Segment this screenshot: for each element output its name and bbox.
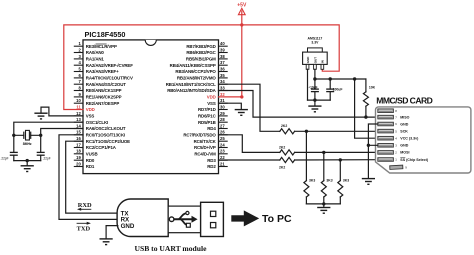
svg-text:18: 18 [76, 149, 81, 154]
wire: pin 33 SDI to SD MISO pad [219, 91, 378, 118]
svg-text:VDD: VDD [207, 95, 216, 100]
wire: pin 34 SCK to level divider [219, 84, 280, 131]
svg-text:RC6/TX/CK: RC6/TX/CK [194, 139, 217, 144]
node: crystal right junction [39, 134, 42, 137]
svg-text:RC5/D+/VP: RC5/D+/VP [194, 145, 216, 150]
node: pulldown common junction [322, 202, 325, 205]
net label RXD with left arrow [77, 202, 92, 211]
svg-text:10: 10 [76, 98, 81, 103]
svg-text:35: 35 [220, 73, 225, 78]
node: 100uF top junction [329, 77, 332, 80]
svg-text:RE1/AN6/CK2SPP: RE1/AN6/CK2SPP [86, 95, 122, 100]
ground (USB module) [100, 239, 113, 245]
SD pad 1 SS (Chip Select) [378, 158, 429, 162]
svg-text:RE0/AN5/CK1SPP: RE0/AN5/CK1SPP [86, 88, 122, 93]
svg-text:RD7/P1D: RD7/P1D [198, 107, 216, 112]
svg-text:20: 20 [76, 161, 81, 166]
node: MISO pull-up junction [364, 115, 367, 118]
node: MOSI junction [322, 151, 325, 154]
node: 3.3V rail junction [353, 77, 356, 80]
node: ground bus junction [313, 98, 316, 101]
svg-text:3K3: 3K3 [343, 179, 349, 183]
wire: SD GND pads to ground [368, 124, 377, 178]
svg-text:TXD: TXD [77, 225, 91, 232]
PIC18F4550 left pins 1-20: stubs, numbers and labels [74, 41, 133, 169]
svg-text:25: 25 [220, 136, 225, 141]
svg-text:26: 26 [220, 130, 225, 135]
wire: +5V vertical drop to VDD pin 32 [219, 11, 242, 97]
svg-text:RD4: RD4 [207, 126, 216, 131]
svg-text:MISO: MISO [400, 115, 409, 119]
capacitor 10uF [311, 79, 319, 100]
svg-text:RD0: RD0 [86, 158, 95, 163]
ground (pin 12 VSS) [34, 113, 47, 119]
ground (crystal caps) [21, 166, 34, 172]
wire: regulator ground bus [308, 100, 331, 106]
ground (pin 31 VSS) [235, 110, 248, 116]
node: SCK junction [305, 130, 308, 133]
svg-text:RD3: RD3 [207, 158, 216, 163]
svg-text:.22pF: .22pF [0, 156, 8, 160]
node: VDD pin32 junction [240, 95, 243, 98]
crystal X1 8MHz [24, 130, 31, 140]
svg-text:RB7/KBI3/PGD: RB7/KBI3/PGD [186, 44, 215, 49]
svg-text:38: 38 [220, 54, 225, 59]
svg-text:RB1/AN10/INT1/SCK/SCL: RB1/AN10/INT1/SCK/SCL [166, 82, 216, 87]
svg-text:RA6/OSC2/CLKOUT: RA6/OSC2/CLKOUT [86, 126, 126, 131]
USB-A plug [201, 202, 224, 236]
svg-text:RC0/T1OSO/T13CKI: RC0/T1OSO/T13CKI [86, 133, 125, 138]
IC U1: PIC18F4550 microcontroller body [83, 40, 219, 174]
svg-text:To PC: To PC [262, 213, 292, 225]
svg-text:3.3V: 3.3V [311, 41, 319, 45]
wire: +5V red rail (top) feeding VDD pin 11 and AMS1117 IN [64, 25, 339, 110]
svg-text:RA3/AN3/VREF+: RA3/AN3/VREF+ [86, 69, 119, 74]
SD pad 5 SCK [378, 129, 408, 133]
To PC arrow [231, 210, 259, 226]
wire: pin 15 to USB module RX [59, 135, 118, 220]
svg-text:17: 17 [76, 142, 81, 147]
svg-text:31: 31 [220, 98, 225, 103]
svg-text:RB2/AN8/INT2/VMO: RB2/AN8/INT2/VMO [177, 76, 217, 81]
node: SS junction [339, 158, 342, 161]
svg-text:VDD: VDD [86, 107, 95, 112]
wire: pulldown common to ground [306, 204, 340, 207]
svg-text:VSS: VSS [207, 101, 216, 106]
svg-text:MMC/SD CARD: MMC/SD CARD [376, 96, 432, 106]
resistor 3K3 (MOSI pulldown) [321, 152, 326, 204]
net label TXD with right arrow [77, 222, 91, 233]
svg-text:37: 37 [220, 60, 225, 65]
svg-text:RB3/AN9/CCP2/VPO: RB3/AN9/CCP2/VPO [175, 69, 216, 74]
svg-text:VCC (3.3v): VCC (3.3v) [400, 137, 419, 141]
svg-text:34: 34 [220, 79, 225, 84]
svg-text:16: 16 [76, 136, 81, 141]
wire: pin 26 SDO to level divider [219, 135, 280, 153]
SD pad 6 GND [378, 122, 409, 126]
module pin labels TX RX GND [121, 210, 135, 230]
SD pad 2 MOSI [378, 151, 410, 155]
SD pad 4 VCC (3.3v) [378, 136, 419, 140]
svg-text:10K: 10K [369, 86, 376, 90]
svg-text:RE2/AN7/OESPP: RE2/AN7/OESPP [86, 101, 120, 106]
wire: MOSI to SD MOSI pad [295, 151, 378, 153]
svg-text:14: 14 [76, 123, 81, 128]
node: regulator cap junction (10uF top) [313, 77, 316, 80]
svg-text:RB0/AN12/INT0/SDI/SDA: RB0/AN12/INT0/SDI/SDA [167, 88, 216, 93]
svg-text:15: 15 [76, 130, 81, 135]
resistor 2K2 (SS series) [280, 157, 295, 162]
svg-text:OSC1/CLKI: OSC1/CLKI [86, 120, 108, 125]
svg-text:GND: GND [306, 56, 310, 64]
wire: crystal horizontal link [14, 134, 41, 136]
svg-text:19: 19 [76, 155, 81, 160]
wire: pin 12 VSS to ground [41, 107, 83, 116]
svg-text:22: 22 [220, 155, 225, 160]
svg-text:33: 33 [220, 85, 225, 90]
svg-text:RC1/T1OSI/CCP2/UOE: RC1/T1OSI/CCP2/UOE [86, 139, 130, 144]
label AMS1117 3.3V [308, 37, 323, 45]
ground (regulator) [308, 106, 321, 112]
svg-text:29: 29 [220, 111, 225, 116]
svg-text:VUSB: VUSB [86, 152, 98, 157]
svg-text:RA4/T0CKI/C1OUT/RCV: RA4/T0CKI/C1OUT/RCV [86, 76, 133, 81]
svg-text:100uF: 100uF [333, 87, 343, 91]
wire: crystal caps common to ground [14, 161, 41, 166]
svg-text:USB to UART module: USB to UART module [135, 244, 208, 253]
svg-text:24: 24 [220, 142, 225, 147]
wire: pin 14 OSC2 to crystal [41, 129, 83, 136]
svg-text:8MHz: 8MHz [23, 142, 32, 146]
ground (pulldown resistors) [317, 208, 330, 214]
svg-text:11: 11 [76, 104, 81, 109]
svg-text:VSS: VSS [86, 114, 95, 119]
svg-text:SCK: SCK [400, 129, 408, 133]
svg-text:RD6/P1C: RD6/P1C [198, 114, 217, 119]
svg-text:3K3: 3K3 [326, 179, 332, 183]
USB symbol plate [168, 206, 200, 233]
svg-text:27: 27 [220, 123, 225, 128]
USB to UART module body [117, 199, 168, 237]
svg-text:39: 39 [220, 47, 225, 52]
wire: module GND to ground [106, 226, 118, 239]
svg-text:2K2: 2K2 [279, 145, 285, 149]
wire: pin 16 to USB module TX [66, 141, 118, 213]
svg-text:RB4/AN11/KBI0/CSSPP: RB4/AN11/KBI0/CSSPP [170, 63, 216, 68]
svg-text:GND: GND [400, 144, 408, 148]
svg-text:3K3: 3K3 [309, 179, 315, 183]
node: +5V rail junction [240, 23, 243, 26]
svg-text:GND: GND [400, 122, 408, 126]
svg-text:RD1: RD1 [86, 164, 95, 169]
USB trident icon [169, 211, 197, 227]
resistor 3K3 (SS pulldown) [338, 160, 343, 204]
capacitor 100uF [326, 79, 334, 100]
svg-text:RE3/MCLR/VPP: RE3/MCLR/VPP [86, 44, 117, 49]
voltage regulator U2 AMS1117-3.3 [303, 48, 328, 69]
svg-text:RA2/AN2/VREF-/CVREF: RA2/AN2/VREF-/CVREF [86, 63, 133, 68]
svg-text:30: 30 [220, 104, 225, 109]
SD pad 9 [390, 165, 403, 169]
node: crystal left junction [12, 134, 15, 137]
wire: 3.3V branch to SD VCC pad [355, 79, 378, 138]
resistor 2K2 (MOSI series) [280, 150, 295, 155]
SD pad 3 GND [378, 144, 409, 148]
svg-text:+5V: +5V [237, 2, 247, 8]
wire: pin 13 OSC1 to crystal [14, 122, 83, 135]
svg-text:2K2: 2K2 [279, 165, 285, 169]
wire: SCK to SD SCK pad [295, 130, 378, 132]
wire: SS to SD SS pad [295, 159, 378, 161]
wire: pin 22 RD3 to level divider [219, 159, 280, 161]
svg-text:36: 36 [220, 66, 225, 71]
svg-text:.22pF: .22pF [43, 156, 51, 160]
svg-text:21: 21 [220, 161, 225, 166]
capacitor C1 22pF (left) [10, 135, 18, 160]
svg-text:2K2: 2K2 [281, 124, 287, 128]
resistor 10K (MISO pull-up) [363, 79, 368, 117]
resistor 2K2 (SCK series) [280, 129, 295, 134]
svg-text:MOSI: MOSI [400, 151, 409, 155]
svg-text:RD2: RD2 [207, 164, 216, 169]
svg-text:RC7/RX/DT/SDO: RC7/RX/DT/SDO [183, 133, 216, 138]
power +5V symbol [237, 2, 247, 14]
svg-text:+10uF: +10uF [308, 85, 317, 89]
capacitor C2 22pF (right) [37, 135, 45, 160]
svg-text:RA0/AN0: RA0/AN0 [86, 50, 105, 55]
svg-text:PIC18F4550: PIC18F4550 [85, 30, 126, 39]
connector J1: MMC/SD card outline [376, 107, 471, 173]
svg-text:OUT: OUT [313, 57, 317, 64]
SD pad 7 MISO [378, 115, 410, 119]
svg-text:SS (Chip Select): SS (Chip Select) [400, 158, 429, 162]
wire: pin 31 VSS to ground [219, 103, 242, 109]
ground (SD card) [362, 179, 375, 185]
node: GND pads junction [367, 144, 370, 147]
PIC18F4550 right pins 40-21: stubs, numbers and labels [166, 41, 228, 169]
svg-text:23: 23 [220, 149, 225, 154]
svg-text:RXD: RXD [78, 202, 92, 209]
svg-text:RC4/D-/VM: RC4/D-/VM [194, 152, 216, 157]
svg-text:28: 28 [220, 117, 225, 122]
svg-text:RB5/KBI1/PGM: RB5/KBI1/PGM [186, 57, 216, 62]
svg-text:RA1/AN1: RA1/AN1 [86, 57, 105, 62]
svg-text:RA5/AN4/SS/C2OUT: RA5/AN4/SS/C2OUT [86, 82, 126, 87]
svg-text:12: 12 [76, 111, 81, 116]
svg-text:IN: IN [321, 60, 325, 63]
node: caps junction [26, 159, 29, 162]
svg-text:RB6/KBI2/PGC: RB6/KBI2/PGC [186, 50, 216, 55]
SD pad 8 [378, 109, 397, 113]
svg-text:13: 13 [76, 117, 81, 122]
svg-text:GND: GND [121, 223, 135, 230]
svg-text:RD5/P1B: RD5/P1B [198, 120, 216, 125]
svg-text:RC2/CCP1/P1A: RC2/CCP1/P1A [86, 145, 117, 150]
wire: AMS1117 GND leg down [307, 69, 309, 100]
svg-text:32: 32 [220, 92, 225, 97]
svg-text:40: 40 [220, 41, 225, 46]
resistor 3K3 (SCK pulldown) [304, 131, 309, 204]
wire: 3.3V output rail [315, 69, 366, 79]
